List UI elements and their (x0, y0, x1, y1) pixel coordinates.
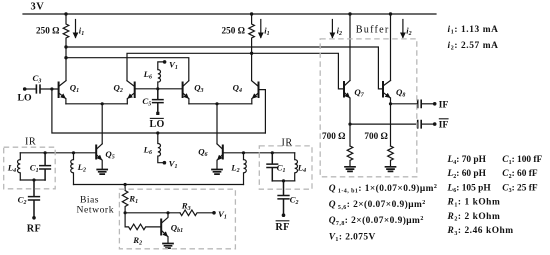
svg-text:L2: 60 pH: L2: 60 pH (447, 169, 487, 180)
node: R1 top tap (124, 183, 127, 186)
svg-text:i1: i1 (264, 26, 269, 38)
buffer dashed box (320, 39, 417, 177)
svg-text:Q 1-4, b1: 1×(0.07×0.9)μm2: Q 1-4, b1: 1×(0.07×0.9)μm2 (329, 183, 438, 195)
transistor Q7 base bar (343, 82, 345, 97)
transistor Q5 collector (97, 144, 102, 149)
node: IF tap at Q8 emitter (389, 102, 392, 105)
IF-bar terminal dot (433, 122, 437, 126)
node: LO+ tap to bias inductor (156, 131, 159, 134)
wire: Q6 base line to right IR block (223, 152, 294, 154)
svg-text:Q5: Q5 (105, 149, 114, 161)
svg-text:L6: 105 pH: L6: 105 pH (447, 183, 492, 194)
capacitor C3 (36, 85, 40, 93)
wire Q8 emitter down to 700ohm (390, 98, 392, 146)
wire cap to IF terminal (422, 103, 434, 105)
svg-text:L6: L6 (143, 69, 152, 81)
svg-text:R2: R2 (132, 235, 142, 247)
svg-text:R1: 1 kOhm: R1: 1 kOhm (447, 198, 501, 209)
bias network dashed box (119, 189, 235, 249)
wire Q4 emitter down (251, 99, 253, 104)
svg-text:R2: 2 kOhm: R2: 2 kOhm (447, 212, 501, 223)
right IR block: capacitor C1 (267, 153, 278, 181)
node: emitter rail tap to Q5 (101, 102, 104, 105)
transistor Q5 emitter with arrow (97, 155, 102, 160)
LO input terminal (23, 87, 27, 91)
svg-text:Q7: Q7 (354, 87, 364, 99)
wire: Q3/Q4 shared emitter rail (189, 103, 252, 105)
svg-text:C5: C5 (142, 96, 151, 108)
svg-text:i1: i1 (79, 26, 84, 38)
svg-text:Q1: Q1 (70, 83, 79, 95)
transistor Q4 base bar (mirrored) (258, 83, 260, 98)
svg-text:C3: C3 (33, 73, 42, 85)
left IR dashed box (4, 147, 56, 189)
svg-text:C1: C1 (277, 163, 286, 175)
wire: output rail B (y=53.3) from Q2 collector to buffer Q7 base drop (127, 53, 343, 89)
ground below 700ohm left (345, 167, 355, 172)
inductor L2 right (244, 153, 247, 185)
transistor Q6 emitter with arrow (218, 155, 223, 160)
svg-text:Q8: Q8 (396, 87, 405, 99)
terminal dot V1 mid (163, 161, 167, 165)
wire: output rail A (y=47) from left resistor to buffer Q8 base drop (66, 47, 382, 89)
svg-text:Q4: Q4 (233, 83, 242, 95)
svg-text:RF: RF (27, 224, 41, 235)
node: C2 left tap (32, 178, 35, 181)
node: Qb1 collector tap (166, 211, 169, 214)
svg-text:L4: L4 (7, 163, 16, 175)
IF terminal dot (433, 102, 437, 106)
node: IF-bar tap at Q7 emitter (348, 123, 351, 126)
transistor Q3 emitter with arrow (183, 93, 188, 98)
wire: Q2/Q3 base line (136, 88, 182, 90)
resistor 700ohm left (347, 146, 353, 166)
transistor Q7 emitter with arrow (345, 93, 350, 98)
wire: Q5 base line to IR block (20, 152, 95, 154)
svg-text:i1: 1.13 mA: i1: 1.13 mA (448, 25, 499, 36)
node: C2 right tap (282, 179, 285, 182)
svg-text:C3: 25 fF: C3: 25 fF (502, 183, 538, 194)
node: rail junction at left 250ohm resistor (64, 12, 67, 15)
svg-text:RF: RF (275, 222, 289, 233)
transistor Q5 base bar (95, 146, 97, 159)
capacitor IF coupling (418, 100, 422, 107)
svg-text:V1: 2.075V: V1: 2.075V (329, 232, 376, 243)
current arrow i1 left (75, 20, 77, 38)
transistor Q8 collector (384, 81, 391, 86)
node: Q1 base junction (50, 87, 53, 90)
wire: Q5 collector vertical from emitter rail (101, 104, 103, 144)
svg-text:IF: IF (439, 120, 449, 131)
resistor 250ohm left (63, 14, 69, 47)
terminal square LO-bar (156, 112, 159, 115)
svg-text:R1: R1 (128, 194, 138, 206)
inductor L6 upper (to V1) (158, 62, 164, 89)
node: LO- bias node (156, 87, 159, 90)
wire LO terminal to C3 (25, 88, 36, 90)
wire: LO+ line from Q1 base to Q4 base (52, 89, 266, 133)
node: C1 left top (44, 151, 47, 154)
inductor L2 left (71, 153, 74, 185)
wire: Q1 collector vertical (65, 47, 67, 81)
node B dot at right resistor bottom (250, 52, 253, 55)
node: rail junction at right 250ohm resistor (250, 12, 253, 15)
transistor Q1 emitter with arrow (59, 93, 65, 98)
svg-text:250 Ω: 250 Ω (36, 26, 59, 36)
svg-text:L2: L2 (77, 162, 86, 174)
resistor R2 (125, 224, 160, 230)
wire: Q4 base to LO+ line (259, 90, 265, 133)
capacitor C2 right (278, 181, 289, 214)
resistor 250ohm right (249, 14, 255, 47)
svg-text:LO: LO (18, 93, 33, 104)
svg-text:C2: 60 fF: C2: 60 fF (502, 169, 538, 180)
transistor Q2 emitter with arrow (128, 93, 134, 98)
svg-text:IF: IF (439, 99, 449, 110)
capacitor C5 (153, 89, 163, 112)
wire: R1 bottom to Qb1 collector and R3 (125, 212, 180, 214)
left IR block: capacitor C1 (40, 153, 51, 180)
current arrow i2 right (402, 20, 404, 38)
node: rail junction at buffer Q7 collector (348, 12, 351, 15)
wire: output rail A spur (y=57.7) to Q3 collector (66, 58, 189, 81)
wire Q2 emitter down (126, 99, 128, 104)
wire: Q7 collector vertical from 3V rail (349, 14, 351, 81)
ground at Qb1 emitter (163, 244, 173, 249)
ground at Q5 emitter (97, 170, 107, 175)
wire C3 to Q1 base node (41, 88, 58, 90)
transistor Q3 base bar (182, 83, 184, 98)
svg-text:Qb1: Qb1 (171, 223, 183, 235)
transistor Q4 collector (252, 81, 258, 86)
svg-text:i2: i2 (337, 26, 342, 38)
svg-text:LO: LO (150, 119, 165, 130)
resistor R3 (180, 210, 213, 216)
svg-text:Q6: Q6 (198, 147, 207, 159)
wire Q6 emitter to ground (216, 160, 218, 169)
transistor Q8 emitter with arrow (384, 93, 390, 98)
svg-text:C2: C2 (290, 195, 299, 207)
RF terminal dot (32, 216, 36, 220)
svg-text:Q 5,6: 2×(0.07×0.9)μm2: Q 5,6: 2×(0.07×0.9)μm2 (329, 199, 426, 211)
svg-text:i2: 2.57 mA: i2: 2.57 mA (448, 41, 499, 52)
wire Q5 emitter to ground (101, 160, 103, 169)
wire Q3 emitter down (188, 99, 190, 104)
svg-text:V1: V1 (218, 209, 227, 221)
terminal dot V1 bias (212, 211, 216, 215)
current arrow i1 right (260, 20, 262, 38)
transistor Q6 collector (217, 144, 222, 149)
svg-text:C1: 100 fF: C1: 100 fF (502, 155, 542, 166)
terminal dot V1 upper (163, 60, 167, 64)
svg-text:R3: 2.46 kOhm: R3: 2.46 kOhm (447, 226, 514, 237)
left IR block: bottom wire (20, 179, 45, 181)
wire: Q4 collector vertical from right resistor (251, 47, 253, 81)
svg-text:Q2: Q2 (114, 83, 123, 95)
wire Q1 emitter down (65, 99, 67, 104)
svg-text:L4: 70 pH: L4: 70 pH (447, 155, 487, 166)
svg-text:Buffer: Buffer (356, 25, 389, 36)
svg-text:Q3: Q3 (194, 83, 203, 95)
3V supply rail (23, 13, 436, 15)
node: rail junction at buffer Q8 collector (389, 12, 392, 15)
node: L2 right tap (242, 151, 245, 154)
wire: IF output line (391, 103, 417, 105)
wire: bias rail from L2 left to L2 right (74, 184, 244, 186)
svg-text:L4: L4 (297, 163, 306, 175)
wire: IF-bar output line (350, 123, 417, 125)
RF-bar terminal dot (282, 213, 286, 217)
wire Q7 emitter down to 700ohm (349, 98, 351, 146)
right IR block: inductor L4 (295, 153, 298, 181)
svg-text:700 Ω: 700 Ω (364, 131, 387, 141)
ground at Q6 emitter (212, 170, 222, 175)
svg-text:V1: V1 (169, 60, 178, 72)
transistor Qb1 base bar (160, 220, 162, 235)
transistor Q1 collector (59, 81, 66, 87)
capacitor C2 left (29, 180, 40, 216)
svg-text:R3: R3 (181, 201, 191, 213)
node: emitter rail tap to Q6 (215, 102, 218, 105)
svg-text:L2: L2 (230, 163, 239, 175)
wire: Q8 collector vertical from 3V rail (390, 14, 392, 81)
svg-text:L6: L6 (143, 145, 152, 157)
wire: R1 bottom down to R2 (124, 213, 126, 227)
node: L2 left tap (72, 151, 75, 154)
transistor Q6 base bar (mirrored) (222, 146, 224, 159)
svg-text:Q7,8: 2×(0.07×0.9)μm2: Q7,8: 2×(0.07×0.9)μm2 (329, 215, 424, 227)
transistor Q3 collector (183, 81, 189, 86)
wire Qb1 emitter to ground (167, 237, 169, 243)
transistor Qb1 emitter with arrow (162, 231, 168, 236)
node: C1 right top (271, 151, 274, 154)
svg-text:IR: IR (282, 138, 293, 149)
resistor 700ohm right (388, 146, 394, 166)
current arrow i2 left (331, 20, 333, 38)
right IR dashed box (259, 146, 312, 189)
inductor L6 lower (bias to V1) (158, 133, 164, 163)
svg-text:700 Ω: 700 Ω (322, 131, 345, 141)
wire: Q6 collector vertical from emitter rail (216, 104, 218, 144)
svg-text:i2: i2 (406, 26, 411, 38)
svg-text:250 Ω: 250 Ω (222, 26, 245, 36)
ground below 700ohm right (386, 167, 396, 172)
svg-text:3V: 3V (31, 2, 45, 13)
svg-text:IR: IR (25, 137, 36, 148)
left IR block: inductor L4 (18, 153, 21, 180)
transistor Q2 base bar (mirrored) (134, 83, 136, 98)
svg-text:C1: C1 (30, 163, 39, 175)
transistor Q2 collector (127, 81, 134, 86)
svg-text:Network: Network (77, 205, 114, 216)
wire cap to IF-bar terminal (422, 123, 434, 125)
svg-text:C2: C2 (18, 195, 27, 207)
transistor Qb1 collector (162, 213, 168, 223)
right IR block: bottom wire (272, 180, 294, 182)
node A dot at left resistor bottom (64, 45, 67, 48)
node: R1 bottom junction (124, 211, 127, 214)
transistor Q4 emitter with arrow (252, 93, 258, 98)
transistor Q1 base bar (58, 83, 60, 98)
svg-text:V1: V1 (169, 159, 178, 171)
wire: Q1/Q2 shared emitter rail (66, 103, 127, 105)
transistor Q7 collector (345, 81, 350, 86)
transistor Q8 base bar (382, 82, 384, 97)
node dot rail A spur (64, 56, 67, 59)
capacitor IF-bar coupling (418, 121, 422, 128)
resistor R1 (122, 185, 128, 213)
